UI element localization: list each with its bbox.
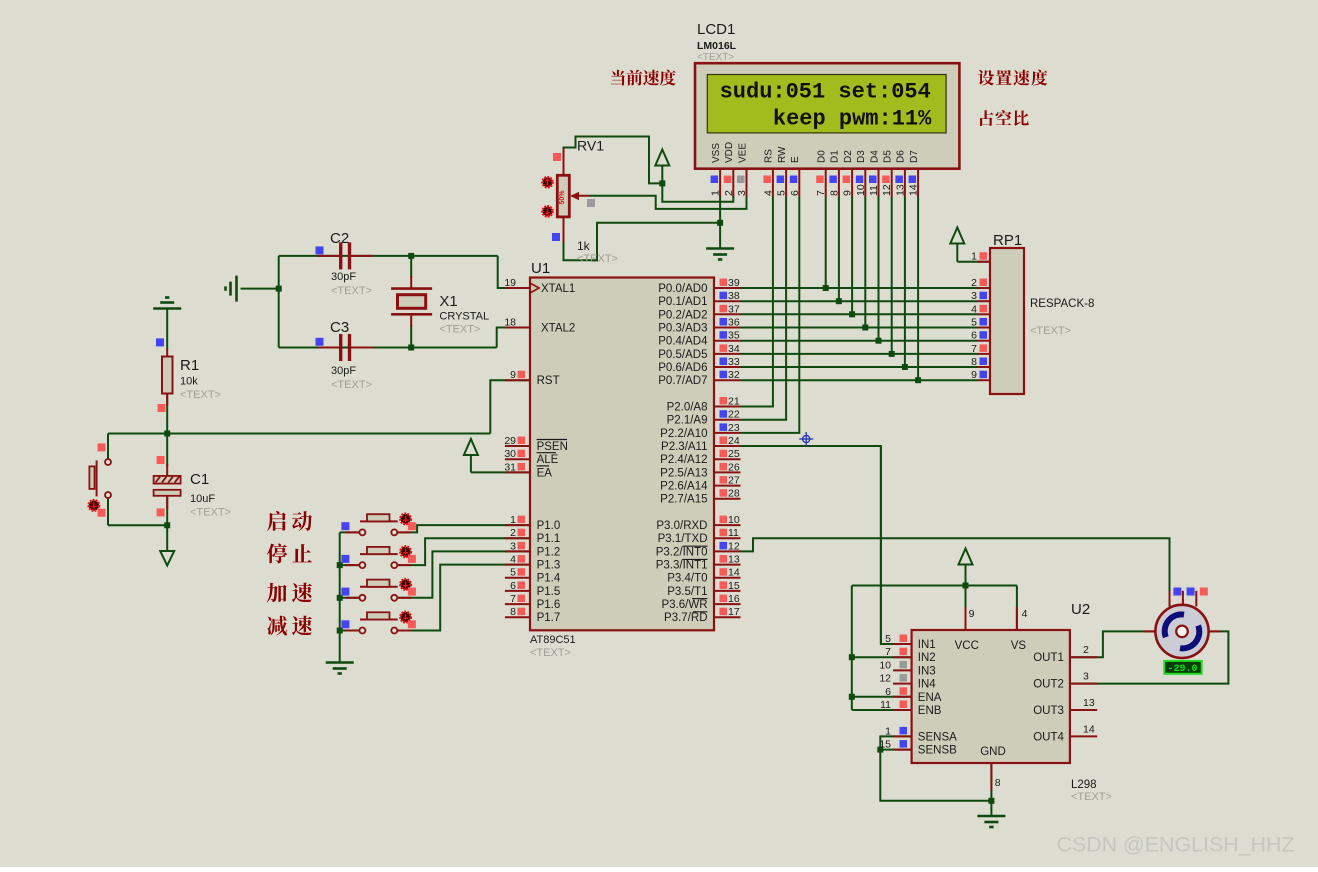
svg-text:2: 2: [723, 190, 735, 196]
svg-text:9: 9: [971, 369, 977, 381]
svg-text:8: 8: [971, 356, 977, 368]
svg-text:P3.5/T1: P3.5/T1: [667, 586, 707, 598]
svg-text:VS: VS: [1011, 640, 1027, 652]
svg-text:12: 12: [879, 673, 891, 685]
svg-text:3: 3: [510, 540, 516, 552]
svg-text:P2.5/A13: P2.5/A13: [660, 467, 707, 479]
svg-text:P0.3/AD3: P0.3/AD3: [658, 323, 707, 335]
svg-text:19: 19: [504, 277, 516, 289]
svg-text:P0.7/AD7: P0.7/AD7: [658, 375, 707, 387]
svg-text:35: 35: [728, 330, 740, 342]
svg-text:E: E: [790, 156, 801, 163]
svg-text:29: 29: [504, 435, 516, 447]
svg-text:9: 9: [969, 608, 975, 620]
svg-text:OUT2: OUT2: [1033, 679, 1064, 691]
svg-text:3: 3: [971, 290, 977, 302]
svg-text:5: 5: [510, 567, 516, 579]
svg-text:P1.5: P1.5: [537, 586, 561, 598]
svg-text:OUT4: OUT4: [1033, 731, 1064, 743]
svg-text:<TEXT>: <TEXT>: [190, 507, 231, 519]
svg-text:D4: D4: [869, 150, 880, 163]
svg-text:<TEXT>: <TEXT>: [439, 324, 480, 336]
svg-text:10: 10: [855, 184, 867, 196]
svg-text:P3.0/RXD: P3.0/RXD: [656, 520, 707, 532]
svg-text:P0.1/AD1: P0.1/AD1: [658, 296, 707, 308]
svg-text:OUT1: OUT1: [1033, 652, 1064, 664]
svg-text:30: 30: [504, 448, 516, 460]
svg-text:9: 9: [510, 369, 516, 381]
svg-text:1: 1: [510, 514, 516, 526]
svg-text:1k: 1k: [577, 239, 591, 253]
svg-text:12: 12: [728, 540, 740, 552]
svg-text:8: 8: [995, 777, 1001, 789]
svg-text:32: 32: [728, 369, 740, 381]
svg-text:27: 27: [728, 475, 740, 487]
svg-text:D1: D1: [830, 150, 841, 163]
svg-text:12: 12: [881, 184, 893, 196]
svg-text:14: 14: [728, 567, 740, 579]
svg-text:IN1: IN1: [918, 639, 936, 651]
svg-text:15: 15: [879, 739, 891, 751]
svg-text:34: 34: [728, 343, 740, 355]
svg-text:24: 24: [728, 435, 740, 447]
svg-text:P0.0/AD0: P0.0/AD0: [658, 283, 707, 295]
svg-text:P2.0/A8: P2.0/A8: [667, 402, 708, 414]
svg-text:CRYSTAL: CRYSTAL: [439, 311, 489, 323]
svg-text:5: 5: [885, 633, 891, 645]
svg-text:1: 1: [971, 251, 977, 263]
svg-text:2: 2: [1083, 644, 1089, 656]
svg-text:sudu:051 set:054: sudu:051 set:054: [720, 80, 931, 105]
svg-text:D3: D3: [856, 150, 867, 163]
svg-text:4: 4: [971, 303, 977, 315]
svg-text:P1.3: P1.3: [537, 560, 561, 572]
svg-text:13: 13: [894, 184, 906, 196]
svg-text:P3.3/INT1: P3.3/INT1: [656, 560, 708, 572]
svg-text:36: 36: [728, 317, 740, 329]
svg-text:C1: C1: [190, 471, 209, 488]
svg-text:5: 5: [971, 317, 977, 329]
svg-text:<TEXT>: <TEXT>: [530, 647, 571, 659]
svg-text:L298: L298: [1071, 779, 1097, 791]
svg-text:RESPACK-8: RESPACK-8: [1030, 298, 1094, 310]
svg-text:4: 4: [510, 554, 516, 566]
svg-text:ALE: ALE: [537, 454, 559, 466]
svg-text:33: 33: [728, 356, 740, 368]
svg-text:ENA: ENA: [918, 692, 942, 704]
svg-text:25: 25: [728, 448, 740, 460]
svg-text:P1.0: P1.0: [537, 520, 561, 532]
svg-text:ENB: ENB: [918, 705, 942, 717]
svg-text:keep pwm:11%: keep pwm:11%: [773, 107, 932, 132]
svg-text:RS: RS: [764, 149, 775, 163]
svg-text:RST: RST: [537, 375, 560, 387]
svg-text:XTAL2: XTAL2: [541, 323, 575, 335]
svg-text:10: 10: [728, 514, 740, 526]
svg-text:26: 26: [728, 461, 740, 473]
svg-text:VCC: VCC: [955, 640, 979, 652]
svg-text:SENSB: SENSB: [918, 745, 957, 757]
svg-text:P2.3/A11: P2.3/A11: [661, 441, 707, 453]
svg-text:3: 3: [1083, 671, 1089, 683]
svg-text:30pF: 30pF: [331, 365, 356, 377]
svg-text:2: 2: [971, 277, 977, 289]
svg-text:11: 11: [868, 185, 880, 196]
svg-text:SENSA: SENSA: [918, 731, 957, 743]
svg-text:RW: RW: [777, 146, 788, 163]
svg-text:7: 7: [510, 593, 516, 605]
svg-text:R1: R1: [180, 357, 199, 374]
svg-text:5: 5: [776, 190, 788, 196]
svg-text:C2: C2: [330, 230, 349, 247]
svg-text:8: 8: [510, 606, 516, 618]
svg-text:U2: U2: [1071, 601, 1090, 618]
svg-text:4: 4: [762, 190, 774, 196]
svg-text:GND: GND: [980, 746, 1006, 758]
svg-text:9: 9: [842, 190, 854, 196]
svg-text:23: 23: [728, 422, 740, 434]
svg-text:IN3: IN3: [918, 665, 936, 677]
svg-text:28: 28: [728, 488, 740, 500]
svg-text:D5: D5: [883, 150, 894, 163]
svg-text:RV1: RV1: [577, 138, 604, 154]
svg-text:<TEXT>: <TEXT>: [1030, 325, 1071, 337]
svg-text:10uF: 10uF: [190, 493, 215, 505]
svg-text:IN4: IN4: [918, 679, 937, 691]
svg-text:P2.1/A9: P2.1/A9: [667, 415, 708, 427]
svg-text:P0.4/AD4: P0.4/AD4: [658, 336, 708, 348]
svg-text:50%: 50%: [559, 190, 566, 205]
svg-text:30pF: 30pF: [331, 271, 356, 283]
svg-text:6: 6: [885, 686, 891, 698]
svg-text:P1.4: P1.4: [537, 573, 561, 585]
svg-text:37: 37: [728, 303, 740, 315]
svg-text:21: 21: [728, 396, 740, 408]
svg-text:C3: C3: [330, 319, 349, 336]
svg-text:OUT3: OUT3: [1033, 705, 1064, 717]
svg-text:6: 6: [971, 330, 977, 342]
svg-text:P3.7/RD: P3.7/RD: [664, 612, 707, 624]
svg-text:14: 14: [1083, 723, 1095, 735]
svg-text:D0: D0: [817, 150, 828, 163]
svg-text:EA: EA: [537, 467, 553, 479]
svg-text:P1.2: P1.2: [537, 546, 561, 558]
svg-text:11: 11: [728, 527, 739, 539]
svg-text:4: 4: [1022, 608, 1028, 620]
svg-text:U1: U1: [531, 260, 550, 277]
svg-text:22: 22: [728, 409, 740, 421]
svg-text:P2.2/A10: P2.2/A10: [660, 428, 707, 440]
svg-text:15: 15: [728, 580, 740, 592]
svg-text:18: 18: [504, 317, 516, 329]
svg-text:10k: 10k: [180, 376, 198, 388]
svg-text:XTAL1: XTAL1: [541, 283, 575, 295]
svg-text:P2.6/A14: P2.6/A14: [660, 481, 708, 493]
svg-text:P1.7: P1.7: [537, 612, 561, 624]
svg-text:11: 11: [880, 699, 891, 711]
svg-text:P3.4/T0: P3.4/T0: [667, 573, 707, 585]
svg-text:7: 7: [971, 343, 977, 355]
svg-text:VDD: VDD: [724, 142, 735, 163]
svg-text:13: 13: [728, 554, 740, 566]
svg-text:LM016L: LM016L: [697, 40, 737, 52]
svg-text:P2.7/A15: P2.7/A15: [660, 494, 707, 506]
svg-text:6: 6: [510, 580, 516, 592]
svg-text:-29.0: -29.0: [1167, 664, 1197, 675]
svg-text:1: 1: [710, 190, 722, 196]
svg-text:<TEXT>: <TEXT>: [180, 389, 221, 401]
svg-text:17: 17: [728, 606, 740, 618]
svg-text:38: 38: [728, 290, 740, 302]
svg-text:<TEXT>: <TEXT>: [697, 52, 734, 63]
svg-text:<TEXT>: <TEXT>: [577, 253, 618, 265]
svg-text:D7: D7: [909, 150, 920, 163]
svg-text:13: 13: [1083, 697, 1095, 709]
svg-text:1: 1: [885, 725, 891, 737]
svg-text:X1: X1: [439, 293, 457, 310]
svg-text:IN2: IN2: [918, 652, 936, 664]
svg-text:P1.1: P1.1: [537, 533, 561, 545]
svg-text:<TEXT>: <TEXT>: [1071, 791, 1112, 803]
svg-text:39: 39: [728, 277, 740, 289]
svg-text:LCD1: LCD1: [697, 21, 735, 38]
svg-text:10: 10: [879, 659, 891, 671]
svg-text:7: 7: [815, 190, 827, 196]
svg-text:P2.4/A12: P2.4/A12: [660, 454, 707, 466]
svg-text:<TEXT>: <TEXT>: [331, 379, 372, 391]
svg-text:P0.2/AD2: P0.2/AD2: [658, 309, 707, 321]
svg-text:7: 7: [885, 646, 891, 658]
svg-text:D2: D2: [843, 150, 854, 163]
svg-text:CSDN @ENGLISH_HHZ: CSDN @ENGLISH_HHZ: [1057, 833, 1295, 857]
svg-text:P1.6: P1.6: [537, 599, 561, 611]
svg-text:6: 6: [789, 190, 801, 196]
svg-text:3: 3: [736, 190, 748, 196]
svg-text:<TEXT>: <TEXT>: [331, 285, 372, 297]
svg-text:P3.6/WR: P3.6/WR: [661, 599, 707, 611]
svg-text:P3.2/INT0: P3.2/INT0: [656, 546, 708, 558]
svg-text:VSS: VSS: [711, 143, 722, 163]
svg-text:VEE: VEE: [737, 143, 748, 163]
svg-text:RP1: RP1: [993, 232, 1022, 249]
svg-text:P0.5/AD5: P0.5/AD5: [658, 349, 707, 361]
svg-text:PSEN: PSEN: [537, 441, 568, 453]
svg-text:P3.1/TXD: P3.1/TXD: [658, 533, 708, 545]
svg-text:P0.6/AD6: P0.6/AD6: [658, 362, 707, 374]
svg-text:AT89C51: AT89C51: [530, 634, 576, 646]
svg-text:16: 16: [728, 593, 740, 605]
svg-text:2: 2: [510, 527, 516, 539]
svg-text:D6: D6: [896, 150, 907, 163]
svg-text:14: 14: [908, 184, 920, 196]
svg-text:8: 8: [828, 190, 840, 196]
svg-text:31: 31: [504, 461, 516, 473]
